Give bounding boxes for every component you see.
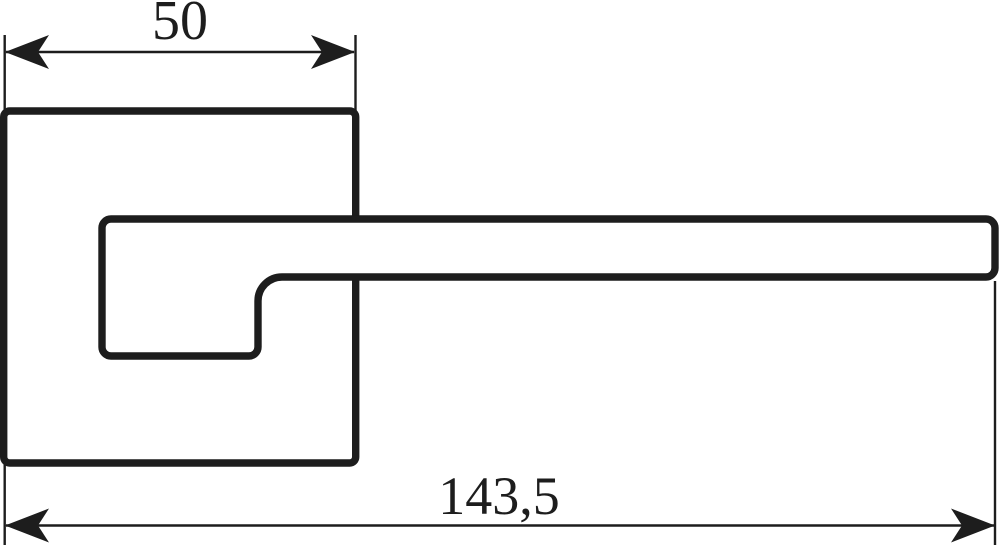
svg-text:50: 50	[152, 0, 208, 52]
svg-text:143,5: 143,5	[438, 466, 560, 526]
